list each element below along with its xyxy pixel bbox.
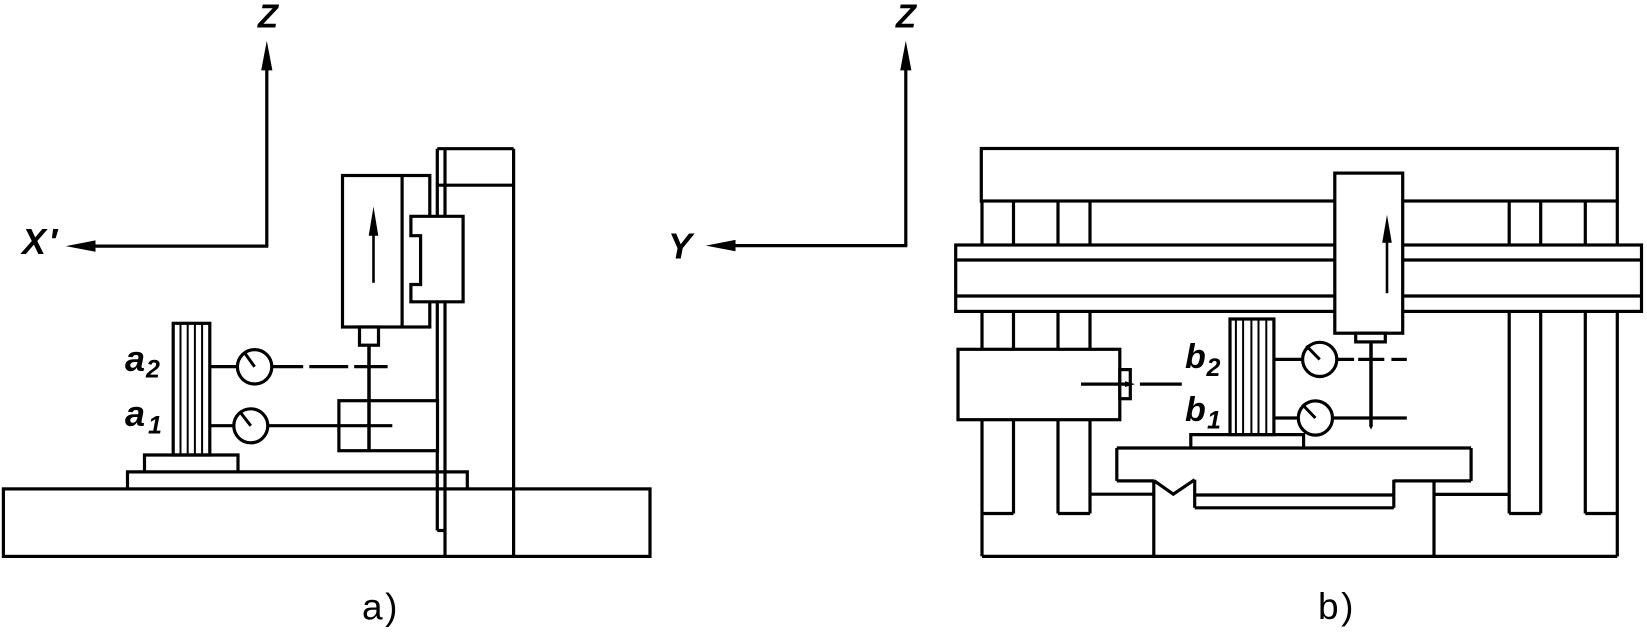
tool holder box (view a) <box>360 327 379 345</box>
gauge stand column hatched (view b) <box>1230 319 1274 435</box>
link line stand to dial b2 <box>1274 358 1303 361</box>
measuring line a1 to ram <box>268 424 393 427</box>
svg-text:1: 1 <box>1207 407 1221 435</box>
spindle head internal divider line (view a) <box>401 176 404 328</box>
device axis dash (view b) <box>1140 383 1182 386</box>
crossbeam internal line upper (view b) <box>956 258 1642 261</box>
svg-text:Z: Z <box>257 0 280 35</box>
pedestal break zigzag M (view b) <box>1154 480 1195 495</box>
machine column left edge (view a) <box>443 149 446 557</box>
machine column rail left line (view a) <box>436 149 439 531</box>
axis Z arrow line (view b) <box>904 68 907 246</box>
axis X' arrow line (view a) <box>95 245 268 248</box>
svg-text:Z: Z <box>895 0 918 35</box>
table plate (view a) <box>128 472 468 489</box>
machine column cap top edge (view a) <box>437 147 513 150</box>
svg-text:b): b) <box>1318 586 1356 627</box>
table plate (view b) <box>1117 446 1471 449</box>
svg-text:a: a <box>125 338 145 379</box>
axis Z arrow line (view a) <box>265 68 268 246</box>
gantry crossbeam (view b) <box>956 245 1642 311</box>
axis Z arrowhead (view b) <box>900 41 911 71</box>
gantry legs lower segments (view b) <box>980 311 983 556</box>
link line stand to dial a2 <box>210 365 238 368</box>
svg-text:a): a) <box>362 587 400 628</box>
svg-text:X′: X′ <box>20 221 59 262</box>
base top edges (view b) <box>1090 493 1154 496</box>
svg-text:Y: Y <box>668 226 695 267</box>
axis X' arrowhead (view a) <box>66 240 96 251</box>
ram box (view a) <box>339 401 438 451</box>
base plate (view a) <box>3 489 650 557</box>
dial indicator b1 <box>1298 401 1332 435</box>
link line stand to dial b1 <box>1274 416 1298 419</box>
spindle head box (view b) <box>1335 173 1403 333</box>
svg-text:b: b <box>1185 391 1206 429</box>
left device tab (view b) <box>1120 370 1131 399</box>
spindle head up-arrowhead (view b) <box>1382 215 1392 243</box>
table pedestal left edge (view b) <box>1152 481 1155 557</box>
svg-text:1: 1 <box>148 411 162 439</box>
measuring line b1 across spindle <box>1333 416 1407 419</box>
left device box (view b) <box>958 349 1120 419</box>
svg-text:2: 2 <box>1206 354 1221 382</box>
table pedestal (view a) <box>145 455 239 472</box>
axis Z arrowhead (view a) <box>261 41 272 71</box>
spindle axis line (view a) <box>367 345 371 450</box>
gantry top beam (view b) <box>981 149 1617 202</box>
tool holder box (view b) <box>1356 333 1386 342</box>
svg-text:a: a <box>125 393 145 434</box>
gauge stand hatch lines (view b) <box>1236 319 1266 435</box>
machine column rail bottom close (view a) <box>437 529 445 532</box>
dial indicator a2 <box>237 350 271 384</box>
device axis solid line (view b) <box>1081 383 1127 386</box>
carriage clamp on column (view a) <box>411 216 463 301</box>
spindle axis line (view b) <box>1369 342 1373 426</box>
crossbeam internal line lower (view b) <box>956 294 1642 297</box>
spindle head up-arrow shaft (view a) <box>372 232 375 283</box>
dial indicator b2 <box>1303 342 1337 376</box>
spindle head up-arrowhead (view a) <box>369 207 379 236</box>
leg bottom closings on base (view b) <box>982 512 1014 515</box>
gantry legs upper segments (view b) <box>1012 201 1015 245</box>
dial indicator a1 <box>234 409 268 443</box>
device axis arrowhead (view b) <box>1125 381 1135 387</box>
machine column right edge (view a) <box>512 149 515 557</box>
axis Y arrow line (view b) <box>735 244 907 247</box>
dashed measuring line a2 <box>272 365 303 368</box>
dashed measuring line b2 <box>1337 358 1354 361</box>
axis Y arrowhead (view b) <box>706 240 736 251</box>
table pedestal right edge (view b) <box>1432 480 1435 557</box>
gauge stand hatch lines (view a) <box>181 323 203 455</box>
platform on table (view b) <box>1191 435 1304 448</box>
spindle head box (view a) <box>343 176 430 328</box>
spindle head up-arrow shaft (view b) <box>1386 239 1389 293</box>
svg-text:b: b <box>1185 338 1206 376</box>
base bottom edge (view b) <box>982 555 1617 558</box>
pedestal step verticals (view b) <box>1193 480 1196 508</box>
svg-text:2: 2 <box>145 356 160 384</box>
link line stand to dial a1 <box>210 424 234 427</box>
machine column cap bottom edge (view a) <box>437 184 513 187</box>
pedestal slab lines (view b) <box>1196 493 1394 496</box>
gauge stand column hatched (view a) <box>173 323 210 455</box>
